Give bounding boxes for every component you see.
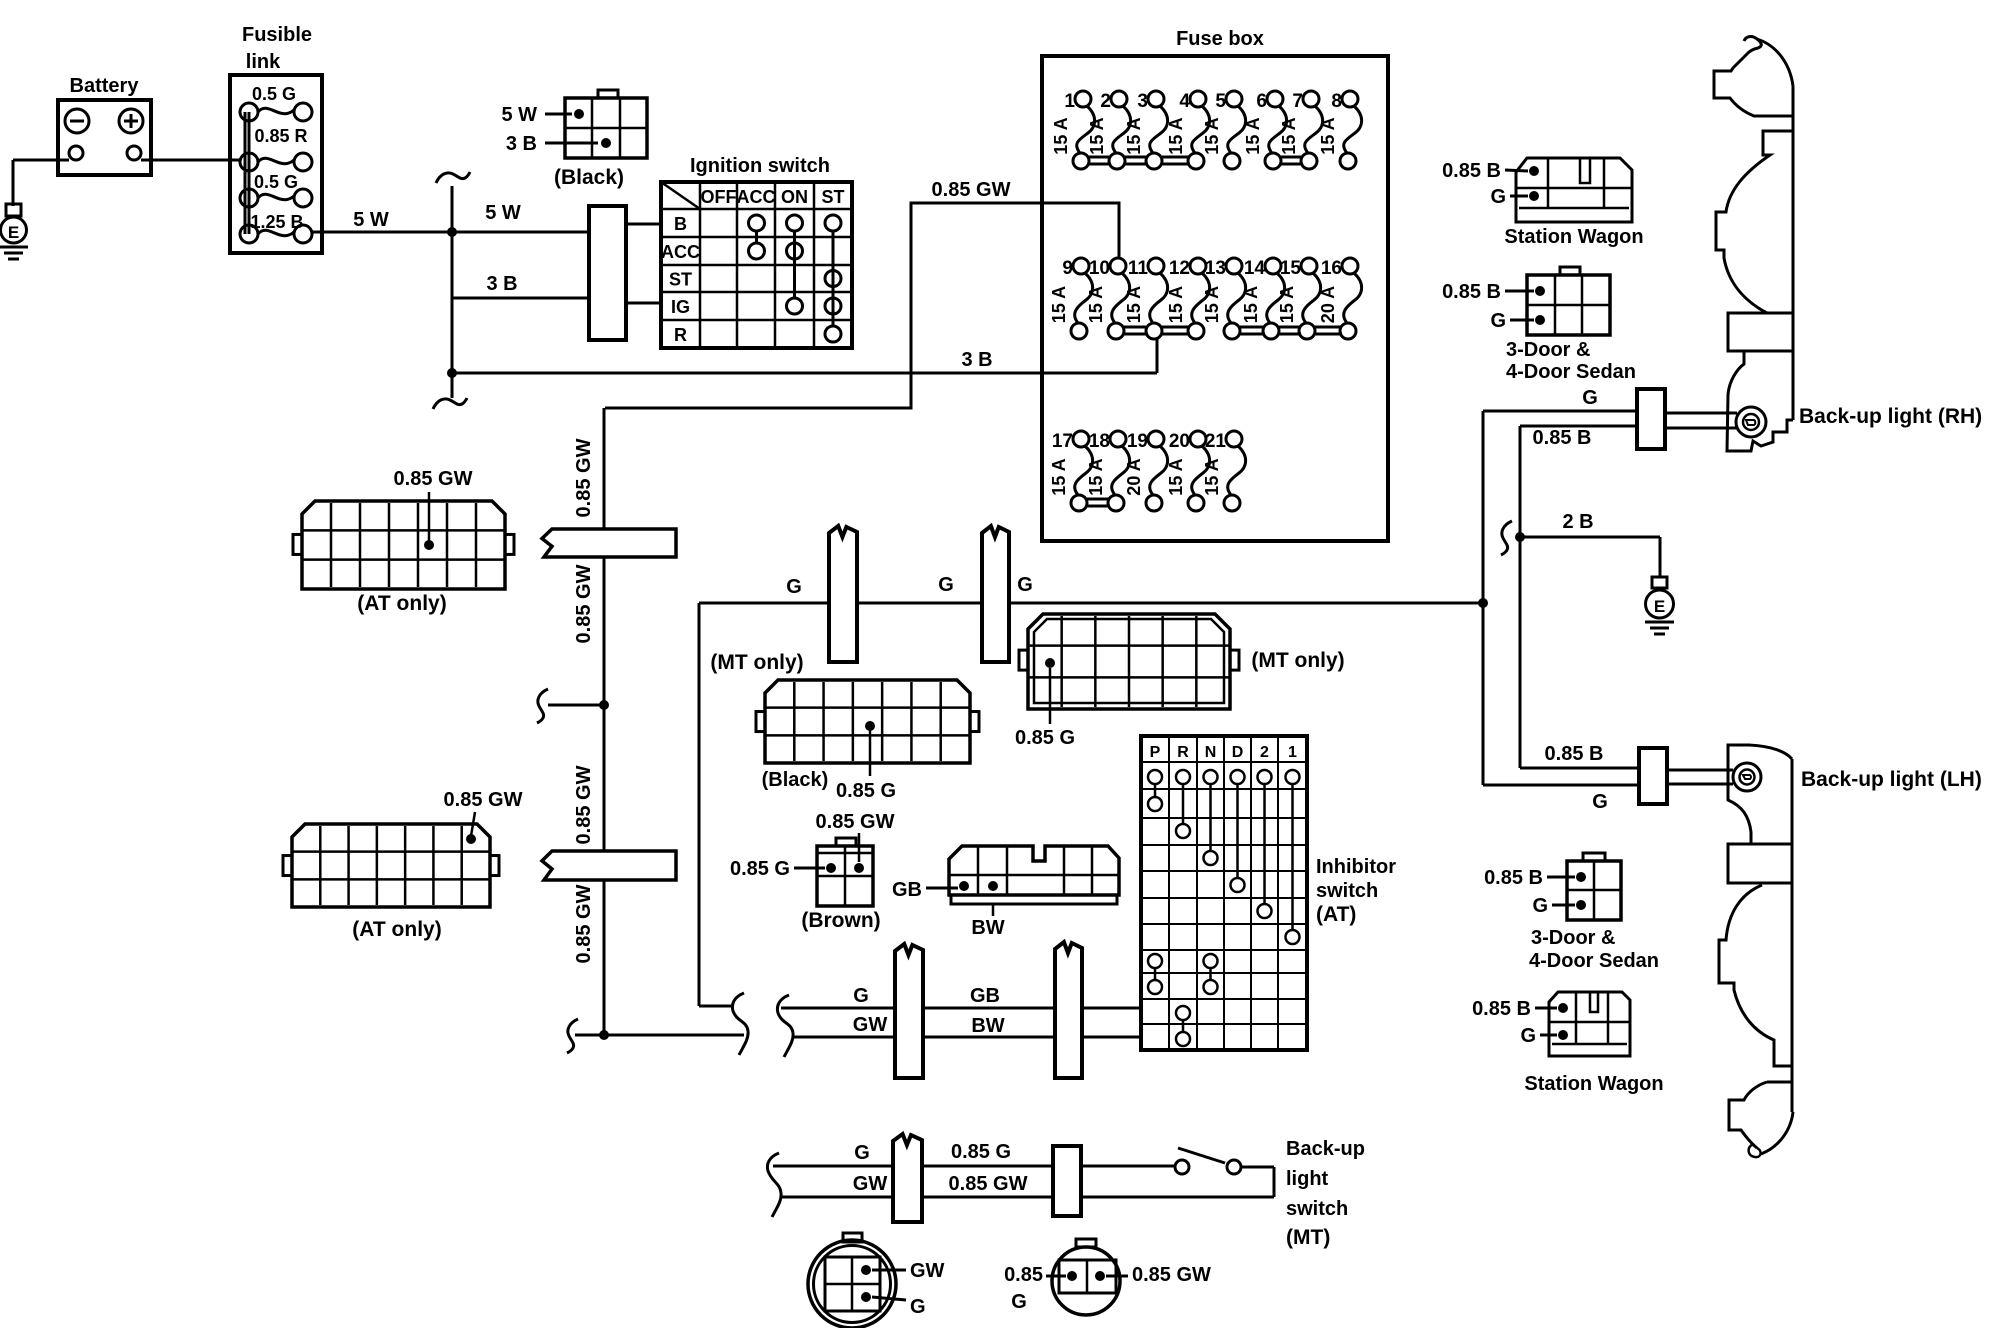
svg-text:7: 7 — [1292, 91, 1303, 112]
svg-text:20 A: 20 A — [1124, 458, 1144, 495]
svg-text:3 B: 3 B — [486, 273, 517, 295]
svg-text:G: G — [910, 1296, 926, 1318]
svg-text:Ignition switch: Ignition switch — [690, 155, 830, 177]
svg-text:0.85 B: 0.85 B — [1442, 281, 1501, 303]
svg-text:0.85 G: 0.85 G — [836, 780, 896, 802]
svg-text:(MT only): (MT only) — [1251, 649, 1344, 672]
svg-text:switch: switch — [1286, 1198, 1348, 1220]
svg-text:ST: ST — [669, 270, 692, 290]
svg-text:15 A: 15 A — [1202, 458, 1222, 495]
svg-text:Back-up light (RH): Back-up light (RH) — [1799, 405, 1982, 428]
svg-text:G: G — [786, 576, 802, 598]
svg-text:GW: GW — [853, 1014, 888, 1036]
svg-text:G: G — [1490, 310, 1506, 332]
svg-text:Fusible: Fusible — [242, 24, 312, 46]
svg-text:0.85 G: 0.85 G — [951, 1141, 1011, 1163]
svg-text:light: light — [1286, 1168, 1329, 1190]
svg-text:G: G — [854, 1142, 870, 1164]
svg-text:15 A: 15 A — [1049, 458, 1069, 495]
svg-text:0.85 GW: 0.85 GW — [949, 1173, 1028, 1195]
svg-text:IG: IG — [671, 297, 690, 317]
svg-text:2: 2 — [1260, 744, 1269, 761]
svg-text:0.85: 0.85 — [1004, 1264, 1043, 1286]
svg-text:15 A: 15 A — [1202, 286, 1222, 323]
svg-text:14: 14 — [1244, 258, 1266, 279]
svg-text:G: G — [1582, 387, 1598, 409]
svg-text:0.85 B: 0.85 B — [1545, 743, 1604, 765]
svg-text:11: 11 — [1128, 258, 1149, 279]
svg-text:10: 10 — [1089, 258, 1110, 279]
svg-text:G: G — [1011, 1291, 1027, 1313]
svg-text:3-Door &: 3-Door & — [1506, 339, 1590, 361]
svg-text:GB: GB — [892, 879, 922, 901]
svg-text:15: 15 — [1280, 258, 1302, 279]
svg-text:0.85 GW: 0.85 GW — [573, 884, 595, 963]
svg-text:G: G — [853, 985, 869, 1007]
svg-text:0.85 R: 0.85 R — [254, 126, 307, 146]
svg-text:8: 8 — [1331, 91, 1342, 112]
svg-text:G: G — [1017, 574, 1033, 596]
svg-text:BW: BW — [971, 917, 1004, 939]
svg-text:20: 20 — [1169, 431, 1190, 452]
svg-text:19: 19 — [1127, 431, 1148, 452]
svg-text:link: link — [246, 51, 281, 73]
svg-text:15 A: 15 A — [1124, 117, 1144, 154]
svg-text:0.85 GW: 0.85 GW — [932, 179, 1011, 201]
svg-text:(Black): (Black) — [554, 166, 624, 189]
svg-text:D: D — [1232, 744, 1244, 761]
svg-text:15 A: 15 A — [1166, 117, 1186, 154]
svg-text:4-Door Sedan: 4-Door Sedan — [1506, 361, 1636, 383]
svg-text:ST: ST — [821, 187, 844, 207]
svg-text:switch: switch — [1316, 880, 1378, 902]
svg-text:OFF: OFF — [701, 187, 737, 207]
svg-text:BW: BW — [971, 1015, 1004, 1037]
svg-text:Battery: Battery — [70, 75, 140, 97]
svg-text:0.85 GW: 0.85 GW — [394, 468, 473, 490]
svg-text:15 A: 15 A — [1166, 458, 1186, 495]
svg-text:G: G — [1592, 791, 1608, 813]
svg-text:0.85 B: 0.85 B — [1442, 160, 1501, 182]
svg-text:2 B: 2 B — [1562, 511, 1593, 533]
svg-text:Back-up: Back-up — [1286, 1138, 1365, 1160]
svg-text:0.85 GW: 0.85 GW — [573, 765, 595, 844]
svg-text:E: E — [8, 223, 19, 242]
svg-text:R: R — [674, 325, 687, 345]
svg-text:ON: ON — [781, 187, 808, 207]
svg-text:B: B — [674, 214, 687, 234]
svg-text:15 A: 15 A — [1086, 458, 1106, 495]
svg-text:(MT only): (MT only) — [710, 651, 803, 674]
svg-text:0.85 G: 0.85 G — [1015, 727, 1075, 749]
svg-text:G: G — [938, 574, 954, 596]
svg-text:15 A: 15 A — [1241, 286, 1261, 323]
svg-text:16: 16 — [1321, 258, 1342, 279]
svg-text:3: 3 — [1137, 91, 1148, 112]
svg-text:0.85 G: 0.85 G — [730, 858, 790, 880]
svg-text:20 A: 20 A — [1318, 286, 1338, 323]
svg-text:G: G — [1520, 1025, 1536, 1047]
svg-text:5 W: 5 W — [353, 209, 389, 231]
svg-text:6: 6 — [1256, 91, 1267, 112]
svg-text:0.85 GW: 0.85 GW — [573, 438, 595, 517]
svg-text:21: 21 — [1205, 431, 1227, 452]
svg-text:15 A: 15 A — [1279, 117, 1299, 154]
svg-text:3 B: 3 B — [506, 133, 537, 155]
svg-text:Station Wagon: Station Wagon — [1504, 226, 1643, 248]
svg-text:15 A: 15 A — [1086, 286, 1106, 323]
svg-text:Inhibitor: Inhibitor — [1316, 856, 1396, 878]
svg-text:3 B: 3 B — [961, 349, 992, 371]
svg-text:0.85 B: 0.85 B — [1472, 998, 1531, 1020]
svg-text:15 A: 15 A — [1243, 117, 1263, 154]
svg-text:0.85 B: 0.85 B — [1484, 867, 1543, 889]
svg-text:2: 2 — [1100, 91, 1111, 112]
svg-text:N: N — [1205, 744, 1217, 761]
svg-text:15 A: 15 A — [1318, 117, 1338, 154]
svg-text:13: 13 — [1205, 258, 1226, 279]
svg-text:15 A: 15 A — [1166, 286, 1186, 323]
svg-text:G: G — [1532, 895, 1548, 917]
svg-text:18: 18 — [1089, 431, 1110, 452]
svg-text:1: 1 — [1064, 91, 1075, 112]
svg-text:GW: GW — [910, 1260, 945, 1282]
svg-text:4-Door Sedan: 4-Door Sedan — [1529, 950, 1659, 972]
svg-text:12: 12 — [1169, 258, 1190, 279]
svg-text:Back-up light (LH): Back-up light (LH) — [1801, 768, 1982, 791]
svg-text:R: R — [1177, 744, 1189, 761]
svg-text:15 A: 15 A — [1049, 286, 1069, 323]
svg-text:0.85 B: 0.85 B — [1533, 427, 1592, 449]
svg-text:(Black): (Black) — [762, 769, 829, 791]
svg-text:GB: GB — [970, 985, 1000, 1007]
svg-text:0.85 GW: 0.85 GW — [1132, 1264, 1211, 1286]
svg-text:E: E — [1654, 597, 1665, 616]
svg-text:0.85 GW: 0.85 GW — [573, 564, 595, 643]
svg-text:0.85 GW: 0.85 GW — [444, 789, 523, 811]
svg-text:4: 4 — [1179, 91, 1190, 112]
svg-text:(AT): (AT) — [1316, 903, 1356, 926]
svg-text:P: P — [1150, 744, 1161, 761]
svg-text:15 A: 15 A — [1277, 286, 1297, 323]
svg-text:0.5 G: 0.5 G — [252, 84, 296, 104]
svg-text:(AT only): (AT only) — [357, 592, 446, 615]
svg-text:(MT): (MT) — [1286, 1226, 1330, 1249]
svg-text:15 A: 15 A — [1051, 117, 1071, 154]
svg-text:5 W: 5 W — [501, 104, 537, 126]
svg-text:5 W: 5 W — [485, 202, 521, 224]
svg-text:G: G — [1490, 186, 1506, 208]
svg-text:ACC: ACC — [737, 187, 776, 207]
svg-text:0.5 G: 0.5 G — [254, 172, 298, 192]
svg-text:5: 5 — [1215, 91, 1226, 112]
svg-text:17: 17 — [1052, 431, 1073, 452]
svg-text:15 A: 15 A — [1202, 117, 1222, 154]
svg-text:Station Wagon: Station Wagon — [1524, 1073, 1663, 1095]
svg-text:ACC: ACC — [661, 242, 700, 262]
svg-text:(AT only): (AT only) — [352, 918, 441, 941]
svg-text:1.25 B: 1.25 B — [250, 212, 303, 232]
svg-text:9: 9 — [1062, 258, 1073, 279]
svg-text:15 A: 15 A — [1124, 286, 1144, 323]
svg-text:0.85 GW: 0.85 GW — [816, 811, 895, 833]
svg-text:Fuse box: Fuse box — [1176, 28, 1264, 50]
svg-text:1: 1 — [1288, 744, 1297, 761]
svg-text:GW: GW — [853, 1173, 888, 1195]
svg-text:3-Door &: 3-Door & — [1531, 927, 1615, 949]
svg-text:(Brown): (Brown) — [801, 909, 880, 932]
svg-text:15 A: 15 A — [1087, 117, 1107, 154]
